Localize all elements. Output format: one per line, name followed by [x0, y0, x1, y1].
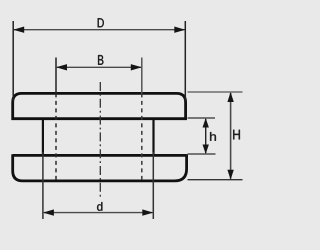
- d extension line left: [42, 152, 44, 219]
- grommet top flange: [13, 93, 186, 120]
- B extension line left: [55, 58, 57, 94]
- label B: [98, 55, 103, 65]
- label h: [210, 132, 216, 141]
- h extension line top: [188, 117, 216, 119]
- label H: [233, 130, 240, 140]
- D extension line right: [184, 21, 186, 101]
- d dimension line: [44, 212, 152, 214]
- D extension line left: [12, 21, 14, 101]
- d extension line right: [152, 152, 154, 219]
- D arrow left: [13, 27, 24, 33]
- label D: [98, 18, 104, 27]
- B extension line right: [141, 58, 143, 94]
- centerline (axis): [99, 82, 101, 197]
- h extension line bottom: [188, 153, 216, 155]
- D dimension line: [14, 29, 185, 31]
- hidden bore line left: [55, 93, 57, 180]
- H extension line top: [188, 91, 243, 93]
- web right edge: [152, 119, 154, 156]
- B dimension line: [57, 66, 141, 68]
- hidden bore line right: [141, 93, 143, 180]
- B arrow right: [131, 64, 142, 70]
- H dimension line: [230, 93, 232, 179]
- d arrow left: [43, 209, 54, 215]
- label d: [97, 202, 102, 211]
- h dimension line: [205, 119, 207, 153]
- H arrow top: [227, 92, 233, 102]
- d arrow right: [142, 209, 153, 215]
- web left edge: [42, 119, 44, 156]
- grommet bottom flange: [13, 154, 187, 181]
- h arrow bottom: [203, 145, 209, 155]
- D arrow right: [174, 27, 185, 33]
- H extension line bottom: [188, 179, 243, 181]
- H arrow bottom: [227, 170, 233, 180]
- h arrow top: [203, 118, 209, 128]
- B arrow left: [56, 64, 67, 70]
